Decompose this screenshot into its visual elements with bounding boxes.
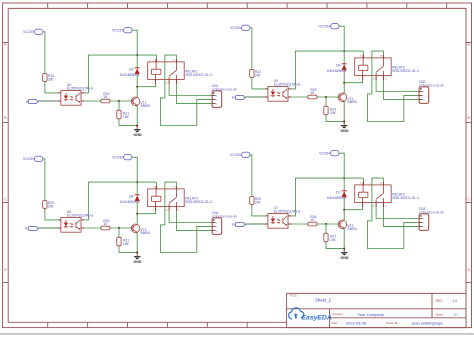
svg-text:1/1: 1/1 [454, 312, 458, 316]
title block TITLE label [290, 294, 298, 298]
svg-text:GND: GND [133, 260, 142, 264]
svg-text:Company:: Company: [332, 312, 345, 316]
svg-text:X7EK500-5.08-3P: X7EK500-5.08-3P [212, 87, 237, 91]
wire VCC5V 2 drop [339, 153, 344, 178]
wire relay NC to CN pin1 [376, 80, 419, 91]
wire relay common over top [372, 178, 384, 221]
svg-text:VCC5V: VCC5V [112, 28, 124, 32]
resistor R25 200 [250, 196, 261, 204]
svg-text:14: 14 [380, 55, 382, 57]
node collector-coil junction [136, 86, 138, 88]
svg-text:EasyEDA: EasyEDA [302, 315, 332, 322]
wire collector [136, 214, 138, 225]
svg-text:2022-03-08: 2022-03-08 [346, 320, 366, 325]
svg-text:12: 12 [166, 209, 168, 211]
svg-text:1N4148WS-2: 1N4148WS-2 [120, 73, 140, 77]
Sheet label [436, 312, 444, 316]
svg-text:X7EK500-5.08-3P: X7EK500-5.08-3P [419, 210, 444, 214]
wire VCC5V to R top [43, 32, 45, 74]
wire common loop to CN pin2 [367, 94, 419, 122]
svg-text:200: 200 [48, 205, 54, 209]
wire pulldown to emitter node [119, 246, 137, 253]
Sheet value 1/1 [454, 312, 458, 316]
diode D8 1N4148WS-2 [120, 182, 140, 214]
wire relay NC to CN pin1 [376, 207, 419, 218]
diode D6 1N4148WS-2 [120, 55, 140, 87]
wire base node [317, 223, 338, 225]
transistor VT2 S8050 [338, 93, 357, 104]
optocoupler U7 EL357N [265, 206, 301, 228]
resistor R26 1K [308, 215, 317, 226]
resistor R22 200 [250, 69, 261, 77]
svg-text:SRD-05VDC-SL-C: SRD-05VDC-SL-C [392, 69, 420, 73]
node rail junction [136, 181, 138, 183]
svg-text:14: 14 [380, 182, 382, 184]
svg-text:4: 4 [360, 182, 361, 184]
svg-text:D8: D8 [129, 195, 133, 199]
Company label [332, 312, 345, 316]
svg-text:12: 12 [166, 82, 168, 84]
wire VCC5V 2 drop [132, 30, 137, 55]
svg-text:11: 11 [178, 209, 180, 211]
wire common loop to CN pin2 [160, 98, 212, 126]
svg-text:jean.redelinghuys: jean.redelinghuys [411, 320, 443, 325]
wire collector [343, 210, 345, 221]
diode D7 1N4148WS-2 [327, 178, 347, 210]
node collector-coil junction [343, 82, 345, 84]
svg-text:X7EK500-5.08-3P: X7EK500-5.08-3P [419, 83, 444, 87]
wire relay common over top [372, 51, 384, 94]
transistor VT1 S8050 [131, 97, 150, 108]
svg-text:TITLE:: TITLE: [290, 294, 298, 298]
svg-text:D6: D6 [129, 68, 133, 72]
svg-text:VCC5V: VCC5V [230, 26, 242, 30]
svg-text:VCC5V: VCC5V [319, 151, 331, 155]
wire input to opto pin2 [245, 223, 265, 225]
svg-text:S8050: S8050 [347, 227, 357, 231]
wire R to opto pin1 [252, 204, 265, 216]
optocoupler U8 EL357N [58, 210, 94, 232]
Date label [332, 321, 339, 325]
ground [340, 248, 349, 260]
svg-text:1N4148WS-2: 1N4148WS-2 [327, 196, 347, 200]
wire relay coil- to collector [344, 207, 362, 210]
wire opto out to base resistor [84, 100, 101, 102]
wire rail drop to coil pin [362, 51, 364, 58]
wire relay NO to CN pin3 [176, 84, 212, 103]
wire emitter [343, 228, 345, 249]
svg-text:14: 14 [173, 59, 175, 61]
relay RELAY2 SRD-05VDC-SL-C [355, 55, 421, 80]
input pin flag IN [26, 100, 38, 104]
wire VCC5V 2 drop [339, 26, 344, 51]
connector CN2 X7EK500-5.08-3P [419, 80, 444, 103]
wire rail drop to coil pin [362, 178, 364, 185]
resistor R24 10K [324, 106, 337, 115]
power flag VCC5V (block1 opto side) [23, 29, 43, 34]
ground [133, 252, 142, 264]
svg-text:11: 11 [385, 205, 387, 207]
svg-text:VCC5V: VCC5V [319, 24, 331, 28]
svg-text:VCC5V: VCC5V [23, 30, 35, 34]
wire opto collector to rail [291, 51, 363, 89]
svg-text:10K: 10K [330, 111, 337, 115]
node collector-coil junction [343, 209, 345, 211]
Company value [358, 312, 384, 317]
wire R to opto pin1 [252, 77, 265, 89]
svg-text:S8050: S8050 [347, 100, 357, 104]
node rail junction [343, 50, 345, 52]
wire pulldown to emitter node [326, 115, 344, 122]
input pin flag P2 [25, 227, 38, 231]
wire opto out to base resistor [84, 227, 101, 229]
node collector-coil junction [136, 213, 138, 215]
svg-text:EL357N(C)(TA)-G: EL357N(C)(TA)-G [274, 83, 301, 87]
transistor VT4 S8050 [131, 224, 150, 235]
wire relay coil- to collector [137, 84, 155, 87]
resistor R27 10K [324, 233, 337, 242]
wire opto collector to rail [84, 182, 156, 220]
Drawn By value [411, 320, 443, 325]
power flag VCC5V (block2 opto side) [230, 25, 250, 30]
svg-text:GND: GND [340, 129, 349, 133]
wire relay coil- to collector [137, 211, 155, 214]
wire base node [317, 96, 338, 98]
wire relay NC to CN pin1 [169, 84, 212, 95]
wire relay common over top [165, 182, 177, 225]
resistor R30 1K [101, 219, 110, 230]
wire R to opto pin1 [45, 208, 58, 220]
optocoupler U9 EL357N [265, 79, 301, 101]
svg-text:11: 11 [385, 78, 387, 80]
wire VCC5V to R top [250, 28, 252, 70]
transistor VT3 S8050 [338, 220, 357, 231]
wire input to opto pin2 [38, 100, 58, 102]
svg-text:4: 4 [153, 59, 154, 61]
EasyEDA logo [289, 308, 332, 322]
svg-text:12: 12 [373, 205, 375, 207]
wire rail drop to coil pin [155, 55, 157, 62]
svg-text:5: 5 [359, 78, 360, 80]
svg-text:11: 11 [178, 82, 180, 84]
resistor R20 1K [101, 92, 110, 103]
wire opto out to base resistor [291, 96, 308, 98]
resistor R18 200 [43, 73, 54, 81]
input pin flag P1 [232, 96, 245, 100]
wire common loop to CN pin2 [367, 221, 419, 249]
resistor R23 1K [308, 88, 317, 99]
svg-text:REV: REV [436, 299, 444, 303]
input pin flag P3 [232, 223, 245, 227]
wire relay NO to CN pin3 [176, 211, 212, 230]
connector CN1 X7EK500-5.08-3P [212, 84, 237, 107]
wire VCC5V to R top [43, 159, 45, 201]
svg-text:EL357N(C)(TA)-G: EL357N(C)(TA)-G [67, 214, 94, 218]
svg-text:D7: D7 [336, 191, 340, 195]
wire relay NO to CN pin3 [383, 80, 419, 99]
svg-text:Sheet_2: Sheet_2 [315, 297, 332, 302]
svg-text:10K: 10K [123, 242, 130, 246]
Date value [346, 320, 366, 325]
svg-text:1N4148WS-2: 1N4148WS-2 [327, 69, 347, 73]
wire base node to pulldown [325, 97, 327, 106]
svg-text:14: 14 [173, 186, 175, 188]
wire VCC5V 2 drop [132, 157, 137, 182]
power flag VCC5V (block3 opto side) [23, 156, 43, 161]
wire emitter [136, 232, 138, 253]
wire input to opto pin2 [245, 96, 265, 98]
svg-text:EL357N(C)(TA)-G: EL357N(C)(TA)-G [274, 210, 301, 214]
wire relay coil- to collector [344, 80, 362, 83]
Drawn By label [386, 321, 399, 325]
svg-text:200: 200 [48, 78, 54, 82]
wire base node [110, 100, 131, 102]
ground [133, 125, 142, 137]
relay RELAY4 SRD-05VDC-SL-C [148, 186, 214, 211]
svg-text:10K: 10K [123, 115, 130, 119]
wire opto out to base resistor [291, 223, 308, 225]
resistor R29 200 [43, 200, 54, 208]
title Sheet_2 [315, 297, 332, 302]
svg-text:SRD-05VDC-SL-C: SRD-05VDC-SL-C [185, 73, 213, 77]
svg-text:S8050: S8050 [140, 104, 150, 108]
wire base node to pulldown [118, 228, 120, 237]
wire base node to pulldown [118, 101, 120, 110]
power flag VCC5V (block3 relay side) [112, 155, 132, 160]
wire relay NC to CN pin1 [169, 211, 212, 222]
svg-text:5: 5 [152, 209, 153, 211]
svg-text:SRD-05VDC-SL-C: SRD-05VDC-SL-C [185, 200, 213, 204]
svg-text:Sheet: Sheet [436, 312, 444, 316]
svg-text:D9: D9 [336, 64, 340, 68]
svg-text:4: 4 [360, 55, 361, 57]
power flag VCC5V (block2 relay side) [319, 24, 339, 29]
wire emitter [343, 101, 345, 122]
svg-text:GND: GND [133, 133, 142, 137]
svg-text:S8050: S8050 [140, 231, 150, 235]
svg-text:VCC5V: VCC5V [23, 157, 35, 161]
relay RELAY1 SRD-05VDC-SL-C [148, 59, 214, 84]
svg-text:Your Company: Your Company [358, 312, 384, 317]
resistor R31 10K [117, 237, 130, 246]
connector CN4 X7EK500-5.08-3P [212, 211, 237, 234]
wire rail drop to coil pin [155, 182, 157, 189]
relay RELAY3 SRD-05VDC-SL-C [355, 182, 421, 207]
REV value 1.0 [452, 299, 457, 303]
svg-text:200: 200 [255, 74, 261, 78]
wire collector [343, 83, 345, 94]
wire relay NO to CN pin3 [383, 207, 419, 226]
svg-text:200: 200 [255, 201, 261, 205]
resistor R21 10K [117, 110, 130, 119]
power flag VCC5V (block4 opto side) [230, 152, 250, 157]
title block frame [287, 293, 466, 327]
wire R to opto pin1 [45, 81, 58, 93]
node rail junction [136, 54, 138, 56]
ground [340, 121, 349, 133]
svg-text:SRD-05VDC-SL-C: SRD-05VDC-SL-C [392, 196, 420, 200]
sheet bottom shadow [0, 333, 474, 335]
wire VCC5V to R top [250, 155, 252, 197]
svg-text:Date:: Date: [332, 321, 339, 325]
power flag VCC5V (block4 relay side) [319, 151, 339, 156]
svg-text:4: 4 [153, 186, 154, 188]
svg-text:1N4148WS-2: 1N4148WS-2 [120, 200, 140, 204]
wire relay common over top [165, 55, 177, 98]
power flag VCC5V (block1 relay side) [112, 28, 132, 33]
svg-text:5: 5 [359, 205, 360, 207]
svg-text:Drawn By:: Drawn By: [386, 321, 399, 325]
svg-text:VCC5V: VCC5V [230, 153, 242, 157]
connector CN3 X7EK500-5.08-3P [419, 207, 444, 230]
wire pulldown to emitter node [326, 242, 344, 249]
svg-text:10K: 10K [330, 238, 337, 242]
svg-text:VCC5V: VCC5V [112, 155, 124, 159]
wire base node to pulldown [325, 224, 327, 233]
wire opto collector to rail [84, 55, 156, 93]
svg-text:GND: GND [340, 256, 349, 260]
wire input to opto pin2 [38, 227, 58, 229]
optocoupler U6 EL357N [58, 83, 94, 105]
svg-text:5: 5 [152, 82, 153, 84]
frame row letters [4, 43, 470, 273]
REV label [436, 299, 444, 303]
svg-text:1.0: 1.0 [452, 299, 457, 303]
node rail junction [343, 177, 345, 179]
diode D9 1N4148WS-2 [327, 51, 347, 83]
wire base node [110, 227, 131, 229]
wire collector [136, 87, 138, 98]
svg-text:EL357N(C)(TA)-G: EL357N(C)(TA)-G [67, 87, 94, 91]
wire opto collector to rail [291, 178, 363, 216]
wire common loop to CN pin2 [160, 225, 212, 253]
wire pulldown to emitter node [119, 119, 137, 126]
svg-text:X7EK500-5.08-3P: X7EK500-5.08-3P [212, 214, 237, 218]
svg-text:12: 12 [373, 78, 375, 80]
wire emitter [136, 105, 138, 126]
